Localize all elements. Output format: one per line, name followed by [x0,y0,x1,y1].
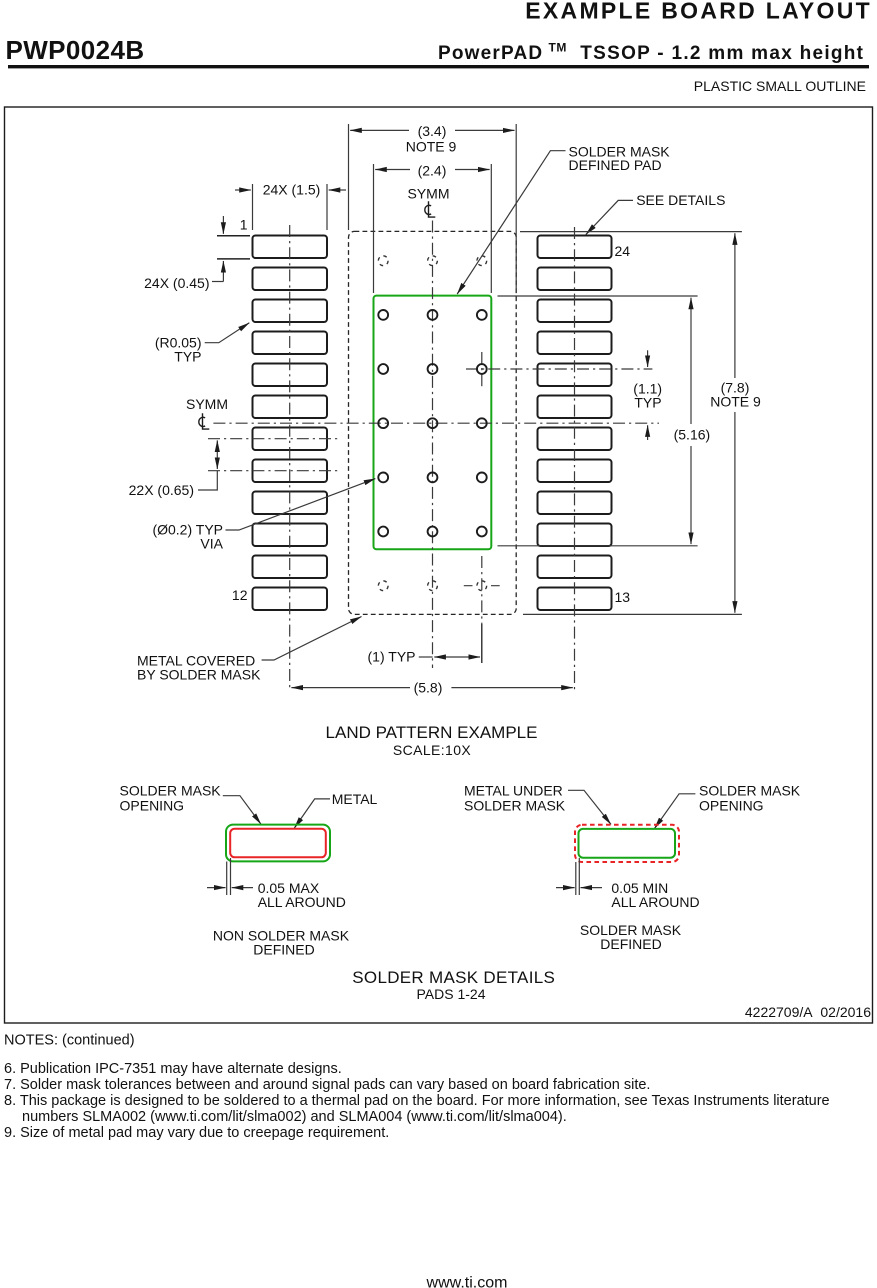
svg-text:NOTE 9: NOTE 9 [406,138,457,154]
svg-text:SOLDER MASK: SOLDER MASK [464,798,566,814]
dim (R0.05) leader [205,323,250,343]
pin 1 top tick [217,235,250,237]
via r6c3 [477,527,487,537]
svg-text:TYP: TYP [634,394,661,410]
svg-text:ALL AROUND: ALL AROUND [611,894,699,910]
svg-text:DEFINED: DEFINED [253,941,314,957]
dim (7.8) extension top [520,231,742,233]
svg-text:DEFINED PAD: DEFINED PAD [569,157,662,173]
svg-text:ALL AROUND: ALL AROUND [258,894,346,910]
dim (5.16) line bottom w/arrow [690,446,692,544]
svg-text:numbers SLMA002 (www.ti.com/li: numbers SLMA002 (www.ti.com/lit/slma002)… [22,1109,567,1125]
ghost via row7 col1 [378,581,388,591]
dim (5.16) line top w/arrow [690,298,692,424]
svg-text:EXAMPLE BOARD LAYOUT: EXAMPLE BOARD LAYOUT [525,0,872,24]
svg-text:SOLDER MASK DETAILS: SOLDER MASK DETAILS [352,968,555,987]
pad 15 [538,524,612,547]
SMD mask rect red dashed [575,825,679,862]
pad 14 [538,556,612,579]
svg-text:1: 1 [240,217,248,233]
ghost via row7 col2 [428,581,438,591]
dim (2.4) extension right [490,164,492,293]
dim 24X (1.5) extension right [326,184,328,230]
dim (7.8) line bottom w/arrow [734,412,736,613]
pad 19 [538,396,612,419]
dim (7.8) extension bottom [523,613,742,615]
svg-text:9. Size of metal pad may vary: 9. Size of metal pad may vary due to cre… [4,1125,389,1141]
svg-text:TSSOP - 1.2 mm max height: TSSOP - 1.2 mm max height [580,43,864,64]
dim (2.4) line right w/arrow [455,169,490,171]
NSMD gap extension lines [227,858,231,895]
dim 24X (0.45) tick [217,258,250,260]
via r3c1 [378,364,388,374]
pad 7 [253,428,328,451]
svg-text:13: 13 [615,589,631,605]
ghost via row1 col1 [378,256,388,266]
SYMM horizontal centerline [213,422,659,424]
pad 1 [253,236,328,259]
via r2c3 [477,310,487,320]
pad 4 [253,332,328,355]
svg-text:DEFINED: DEFINED [600,936,661,952]
pad 5 [253,364,328,387]
via r6c1 [378,527,388,537]
SMD metal rect green [579,829,676,858]
svg-text:SEE DETAILS: SEE DETAILS [636,192,725,208]
svg-text:8. This package is designed to: 8. This package is designed to be solder… [4,1093,830,1109]
dim (5.16) extension top [498,295,698,297]
pad 20 [538,364,612,387]
svg-text:24X (1.5): 24X (1.5) [263,182,321,198]
svg-text:SCALE:10X: SCALE:10X [393,742,472,758]
pad 3 [253,300,328,323]
dim (5.8) left arrow [291,687,410,689]
svg-text:22X (0.65): 22X (0.65) [129,482,194,498]
pad 24 [538,236,612,259]
dim (3.4) extension right [515,124,517,293]
via crosshair ghost bottom right horizontal [464,585,500,587]
via r3c2 [428,364,438,374]
dim 24X (1.5) arrow right [329,189,346,191]
dim (1.1) bottom arrow [647,425,649,440]
metal covered leader [262,617,362,661]
svg-text:(5.16): (5.16) [674,426,711,442]
via r2c2 [428,310,438,320]
pin 1 top arrow [222,216,224,234]
svg-text:OPENING: OPENING [699,798,764,814]
pad 17 [538,460,612,483]
solder mask defined pad leader [457,151,565,294]
NSMD metal leader [294,799,330,828]
via r4c2 [428,418,438,428]
dim (7.8) line top w/arrow [734,233,736,378]
dim 22X (0.65) leader [198,471,217,490]
pad 10 [253,524,328,547]
svg-text:(3.4): (3.4) [418,123,447,139]
svg-text:12: 12 [232,587,248,603]
via r6c2 [428,527,438,537]
via r2c1 [378,310,388,320]
dim 24X (1.5) extension left [252,184,254,230]
pad 23 [538,268,612,291]
svg-text:METAL UNDER: METAL UNDER [464,783,563,799]
svg-text:TYP: TYP [174,348,201,364]
via crosshair ghost bottom right vertical [481,556,483,624]
dim 24X (1.5) arrow left [235,189,251,191]
svg-text:SOLDER MASK: SOLDER MASK [699,783,801,799]
svg-text:SOLDER MASK: SOLDER MASK [120,783,222,799]
svg-text:VIA: VIA [200,535,223,551]
via r5c3 [477,473,487,483]
dim 22X (0.65) row line 1 [208,438,338,440]
dim (1) TYP leader [419,656,433,658]
see details leader [586,200,633,234]
svg-text:PLASTIC SMALL OUTLINE: PLASTIC SMALL OUTLINE [694,78,866,94]
SYMM top centerline symbol [425,201,435,217]
pad 16 [538,492,612,515]
svg-text:24: 24 [615,243,631,259]
dim (5.16) extension bottom [498,545,698,547]
dim (3.4) line right w/arrow [455,129,515,131]
dim (5.8) right arrow [451,687,572,689]
via r4c3 [477,418,487,428]
pad 13 [538,588,612,611]
NSMD solder mask opening leader [223,796,261,825]
via crosshair right col extension (1.1) top [466,368,652,370]
ghost via row1 col3 [477,256,487,266]
dim (1) TYP arrows [434,656,457,658]
svg-text:7. Solder mask tolerances betw: 7. Solder mask tolerances between and ar… [4,1077,650,1093]
ghost via row7 col3 [477,581,487,591]
dim (2.4) extension left [373,164,375,293]
svg-text:LAND PATTERN EXAMPLE: LAND PATTERN EXAMPLE [326,723,538,742]
thermal pad green [374,296,492,550]
pad 22 [538,300,612,323]
NSMD 0.05 arrows [207,887,226,889]
ghost via row1 col2 [428,256,438,266]
svg-text:(1) TYP: (1) TYP [368,648,416,664]
svg-text:SYMM: SYMM [186,396,228,412]
SMD 0.05 arrows [556,887,575,889]
dim 22X (0.65) arrows [216,440,218,455]
dim 24X (0.45) leader [212,281,223,283]
left pads centerline [289,225,291,688]
SYMM left centerline symbol [199,413,209,429]
svg-text:TM: TM [549,41,567,55]
svg-text:www.ti.com: www.ti.com [426,1275,508,1288]
pad 8 [253,460,328,483]
header rule [8,65,869,68]
right pads centerline [574,227,576,693]
SMD gap extension lines [576,858,580,895]
svg-text:OPENING: OPENING [120,798,185,814]
drawing frame [5,107,873,1023]
dim (3.4) line left w/arrow [350,129,409,131]
NSMD metal rect red [230,829,326,858]
dim (3.4) extension left [348,124,350,230]
via crosshair ghost bottom right extension [481,624,483,663]
NSMD mask opening rect green [226,825,330,862]
SMD metal under leader [568,790,611,824]
svg-text:PowerPAD: PowerPAD [438,43,543,64]
svg-text:4222709/A 02/2016: 4222709/A 02/2016 [745,1004,871,1020]
svg-text:SYMM: SYMM [408,186,450,202]
pad 9 [253,492,328,515]
dim (2.4) line left w/arrow [375,169,410,171]
pad 21 [538,332,612,355]
via r3c3 [477,364,487,374]
dim 22X (0.65) row line 2 [208,470,338,472]
via leader [226,479,376,530]
svg-text:(5.8): (5.8) [414,679,443,695]
pad 18 [538,428,612,451]
svg-text:24X (0.45): 24X (0.45) [144,275,209,291]
pad 11 [253,556,328,579]
pad 6 [253,396,328,419]
SYMM vertical centerline [432,221,434,669]
via crosshair right col row2 [481,352,483,387]
pad 2 [253,268,328,291]
pad 12 [253,588,328,611]
dim (1.1) top arrow [647,350,649,367]
via r5c2 [428,473,438,483]
dim 24X (0.45) arrow [222,261,224,282]
svg-text:(2.4): (2.4) [418,163,447,179]
via r4c1 [378,418,388,428]
svg-text:METAL: METAL [332,791,378,807]
SMD opening leader [654,794,695,829]
svg-text:6. Publication IPC-7351 may ha: 6. Publication IPC-7351 may have alterna… [4,1061,342,1077]
svg-text:PADS 1-24: PADS 1-24 [417,986,486,1002]
svg-text:NOTES: (continued): NOTES: (continued) [4,1033,135,1049]
svg-text:PWP0024B: PWP0024B [6,35,145,65]
svg-text:BY SOLDER MASK: BY SOLDER MASK [137,666,261,682]
via r5c1 [378,473,388,483]
svg-text:NOTE 9: NOTE 9 [710,393,761,409]
solder mask boundary dashed [349,231,517,614]
